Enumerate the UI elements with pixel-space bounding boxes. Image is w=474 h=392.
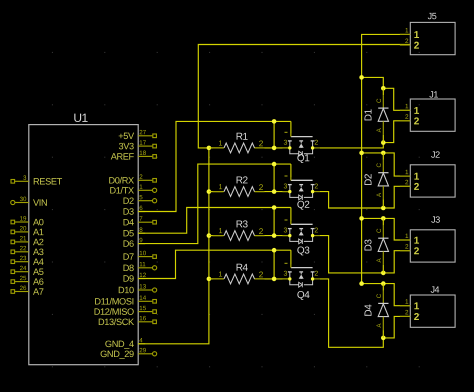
pin 26 A7 — [15, 291, 29, 293]
svg-text:10: 10 — [139, 250, 146, 257]
svg-text:R4: R4 — [236, 263, 249, 274]
pin 6 D3 — [138, 211, 145, 213]
wire gnd rail to R4 pin1 — [209, 278, 223, 280]
svg-text:RESET: RESET — [33, 177, 63, 187]
svg-text:VIN: VIN — [33, 198, 47, 208]
svg-text:AREF: AREF — [111, 152, 135, 162]
svg-text:C: C — [376, 163, 383, 168]
wire R1 pin2 to Q1 — [254, 147, 289, 149]
wire supply tap row4 — [362, 283, 384, 285]
junction R2 pin2 node — [272, 189, 277, 194]
svg-text:U1: U1 — [73, 111, 88, 125]
wire tap to J3 pin1 — [383, 218, 410, 240]
svg-text:D4: D4 — [363, 304, 374, 317]
pin 29 GND_29 — [138, 353, 152, 355]
pin 14 D11/MOSI — [138, 300, 152, 302]
svg-text:GND_29: GND_29 — [100, 349, 134, 359]
wire Q1 drain to D1 anode — [320, 143, 383, 148]
svg-text:2: 2 — [139, 174, 143, 181]
wire gnd rail to R3 pin1 — [209, 235, 223, 237]
svg-text:1: 1 — [218, 269, 222, 278]
svg-text:2: 2 — [405, 179, 409, 186]
svg-text:A5: A5 — [33, 267, 44, 277]
svg-text:3: 3 — [283, 271, 287, 278]
junction D3 anode — [381, 271, 386, 276]
pin 20 A1 — [15, 231, 29, 233]
svg-text:2: 2 — [414, 182, 420, 193]
svg-text:1: 1 — [139, 184, 143, 191]
wire D4 anode to J4 pin2 — [383, 316, 410, 338]
svg-text:D11/MOSI: D11/MOSI — [94, 296, 133, 306]
svg-text:D3: D3 — [123, 207, 134, 217]
svg-text:D2: D2 — [363, 173, 374, 186]
pin 3 RESET — [15, 180, 29, 182]
wire D9 to Q4 gate feed — [138, 250, 291, 278]
svg-text:J3: J3 — [431, 215, 440, 225]
svg-text:Q2: Q2 — [297, 200, 310, 211]
svg-text:1: 1 — [405, 103, 409, 110]
svg-text:29: 29 — [139, 347, 146, 354]
svg-text:15: 15 — [139, 305, 146, 312]
svg-text:2: 2 — [405, 114, 409, 121]
svg-text:R3: R3 — [236, 219, 249, 230]
svg-text:1: 1 — [414, 236, 420, 247]
node Q2 source — [288, 190, 291, 193]
junction gate feed Q4 — [272, 248, 277, 253]
svg-text:16: 16 — [139, 315, 146, 322]
svg-text:25: 25 — [20, 275, 27, 282]
svg-text:30: 30 — [20, 196, 27, 203]
junction D4 anode — [381, 336, 386, 341]
svg-text:+5V: +5V — [118, 131, 135, 141]
svg-text:5: 5 — [139, 194, 143, 201]
junction gnd rail R2 — [207, 189, 212, 194]
junction gate feed Q3 — [272, 205, 277, 210]
wire D5 to Q3 gate feed — [138, 208, 291, 234]
wire J5 pin2 gnd — [198, 45, 410, 148]
pin 30 VIN — [15, 202, 29, 204]
svg-text:2: 2 — [314, 183, 318, 190]
transistor Q2 — [282, 176, 320, 211]
connector J3 — [400, 215, 455, 262]
svg-text:D13/SCK: D13/SCK — [98, 317, 135, 327]
svg-text:1: 1 — [218, 226, 222, 235]
connector J5 — [400, 11, 455, 55]
junction rail row4 — [359, 281, 364, 286]
junction R1 pin2 node — [272, 146, 277, 151]
svg-text:1: 1 — [405, 233, 409, 240]
svg-text:11: 11 — [139, 261, 146, 268]
svg-text:2: 2 — [414, 116, 420, 127]
svg-text:22: 22 — [20, 245, 27, 252]
svg-text:A7: A7 — [33, 287, 44, 297]
svg-text:C: C — [376, 228, 383, 233]
svg-text:C: C — [376, 98, 383, 103]
svg-text:26: 26 — [20, 285, 27, 292]
svg-text:1: 1 — [405, 169, 409, 176]
pin 22 A3 — [15, 251, 29, 253]
svg-text:14: 14 — [139, 295, 146, 302]
pin 2 D0/RX — [138, 179, 152, 181]
pin 19 A0 — [15, 221, 29, 223]
junction R4 pin2 node — [272, 277, 277, 282]
svg-text:1: 1 — [414, 30, 420, 41]
svg-text:D8: D8 — [123, 263, 134, 273]
node Q4 drain — [311, 277, 314, 280]
svg-text:2: 2 — [314, 271, 318, 278]
wire supply tap row1 — [362, 77, 384, 88]
diode D4 — [363, 284, 388, 338]
svg-text:1: 1 — [218, 138, 222, 147]
svg-text:D3: D3 — [363, 239, 374, 252]
svg-text:24: 24 — [20, 265, 27, 272]
junction tap row3 — [381, 216, 386, 221]
wire D1 anode to J1 pin2 — [383, 121, 410, 143]
svg-text:D1: D1 — [363, 108, 374, 121]
junction R3 pin2 node — [272, 233, 277, 238]
svg-text:27: 27 — [139, 129, 146, 136]
svg-text:2: 2 — [259, 227, 264, 236]
wire Q4 gate riser — [290, 250, 292, 267]
svg-text:1: 1 — [414, 106, 420, 117]
svg-text:13: 13 — [139, 284, 146, 291]
junction D1 anode — [381, 140, 386, 145]
wire Q1 gate riser — [290, 121, 292, 136]
resistor R2 — [213, 175, 265, 196]
junction tap row2 — [381, 151, 386, 156]
svg-text:2: 2 — [259, 139, 264, 148]
svg-text:J5: J5 — [428, 11, 437, 21]
connector J1 — [400, 89, 455, 131]
junction rail row2 — [359, 151, 364, 156]
pin 25 A6 — [15, 281, 29, 283]
svg-text:J2: J2 — [431, 150, 440, 160]
svg-text:3V3: 3V3 — [118, 141, 134, 151]
svg-text:D12/MISO: D12/MISO — [94, 307, 134, 317]
transistor Q3 — [282, 220, 320, 257]
wire J5 pin1 supply rail — [362, 34, 411, 283]
svg-text:1: 1 — [218, 182, 222, 191]
svg-text:A3: A3 — [33, 247, 44, 257]
wire R4 pin2 to Q4 — [254, 278, 289, 280]
svg-text:3: 3 — [283, 227, 287, 234]
node Q2 drain — [311, 190, 314, 193]
wire D2 anode to J2 pin2 — [383, 186, 410, 208]
svg-text:J4: J4 — [430, 285, 439, 295]
wire gate junction drop Q3 — [273, 208, 275, 236]
junction tap row1 — [381, 86, 386, 91]
pin 27 +5V — [138, 135, 152, 137]
wire Q3 drain to D3 anode — [320, 236, 383, 273]
svg-text:J1: J1 — [429, 89, 438, 99]
wire Q2 gate riser — [290, 164, 292, 180]
wire Q3 gate riser — [290, 208, 292, 225]
pin 17 3V3 — [138, 145, 152, 147]
wire tap to J4 pin1 — [383, 284, 410, 306]
pin 1 D1/TX — [138, 189, 152, 191]
svg-text:D1/TX: D1/TX — [110, 185, 135, 195]
IC U1 Arduino Nano body — [29, 125, 138, 365]
svg-text:2: 2 — [405, 244, 409, 251]
svg-text:A0: A0 — [33, 217, 44, 227]
pin 24 A5 — [15, 271, 29, 273]
svg-text:D6: D6 — [123, 239, 134, 249]
svg-text:A2: A2 — [33, 237, 44, 247]
pin 7 D4 — [138, 221, 152, 223]
pin 13 D10 — [138, 289, 152, 291]
svg-text:D4: D4 — [123, 217, 134, 227]
svg-text:3: 3 — [283, 183, 287, 190]
pin 11 D8 — [138, 267, 152, 269]
pin 15 D12/MISO — [138, 311, 152, 313]
wire Q4 drain to D4 anode — [320, 279, 383, 347]
svg-text:2: 2 — [259, 270, 264, 279]
pin 8 D5 — [138, 232, 145, 234]
svg-text:1: 1 — [405, 299, 409, 306]
pin 10 D7 — [138, 256, 152, 258]
svg-text:D5: D5 — [123, 228, 134, 238]
pin 5 D2 — [138, 200, 152, 202]
pin 16 D13/SCK — [138, 321, 152, 323]
junction gnd rail R3 — [207, 233, 212, 238]
resistor R1 — [213, 132, 265, 153]
wire gate junction drop Q4 — [273, 250, 275, 279]
node Q1 source — [288, 146, 291, 149]
wire gnd rail to R1 pin1 — [209, 147, 223, 149]
svg-text:2: 2 — [259, 183, 264, 192]
wire R3 pin2 to Q3 — [254, 235, 289, 237]
pin 12 D9 — [138, 278, 145, 280]
wire D6 to Q2 gate feed — [138, 164, 291, 244]
pin 21 A2 — [15, 241, 29, 243]
svg-text:2: 2 — [314, 227, 318, 234]
junction gnd rail R1 — [207, 146, 212, 151]
wire tap to J2 pin1 — [383, 153, 410, 176]
wire D3 to Q1 gate feed — [138, 121, 291, 211]
resistor R3 — [213, 219, 265, 240]
svg-text:2: 2 — [414, 246, 420, 257]
svg-text:A4: A4 — [33, 257, 44, 267]
diode D2 — [363, 153, 388, 207]
wire supply tap row2 — [362, 152, 384, 154]
junction rail row3 — [359, 216, 364, 221]
pin 4 GND_4 — [138, 343, 145, 345]
connector J4 — [400, 285, 455, 328]
junction D2 anode — [381, 206, 386, 211]
svg-text:21: 21 — [20, 235, 27, 242]
svg-text:7: 7 — [139, 216, 143, 223]
diode D1 — [363, 88, 388, 142]
junction gate feed Q2 — [272, 162, 277, 167]
svg-text:2: 2 — [314, 140, 318, 147]
node Q3 source — [288, 234, 291, 237]
svg-text:R2: R2 — [236, 175, 249, 186]
wire supply tap row3 — [362, 217, 384, 219]
node Q4 source — [288, 277, 291, 280]
svg-text:23: 23 — [20, 255, 27, 262]
connector J2 — [400, 150, 455, 197]
svg-text:3: 3 — [23, 175, 27, 182]
svg-text:2: 2 — [414, 41, 420, 52]
svg-text:D2: D2 — [123, 196, 134, 206]
svg-text:D7: D7 — [123, 252, 134, 262]
svg-text:Q3: Q3 — [297, 245, 310, 256]
wire Q2 drain to D2 anode — [320, 192, 383, 208]
wire R2 pin2 to Q2 — [254, 191, 289, 193]
svg-text:20: 20 — [20, 225, 27, 232]
node Q3 drain — [311, 234, 314, 237]
wire tap to J1 pin1 — [383, 88, 410, 110]
svg-text:18: 18 — [139, 150, 146, 157]
junction gnd rail R4 — [207, 277, 212, 282]
pin 23 A4 — [15, 261, 29, 263]
wire GND_4 to gnd rail — [138, 148, 209, 344]
transistor Q4 — [282, 263, 320, 301]
svg-text:1: 1 — [405, 27, 409, 34]
svg-text:GND_4: GND_4 — [105, 339, 134, 349]
pin 18 AREF — [138, 155, 152, 157]
svg-text:A6: A6 — [33, 277, 44, 287]
junction tap row4 — [381, 281, 386, 286]
svg-text:Q4: Q4 — [297, 290, 310, 301]
resistor R4 — [213, 263, 265, 284]
svg-text:2: 2 — [405, 309, 409, 316]
wire gate junction drop Q1 — [273, 121, 275, 147]
node Q1 drain — [311, 146, 314, 149]
svg-text:C: C — [376, 293, 383, 298]
svg-text:17: 17 — [139, 140, 146, 147]
diode D3 — [363, 218, 388, 272]
svg-text:1: 1 — [414, 301, 420, 312]
svg-text:A1: A1 — [33, 227, 44, 237]
svg-text:Q1: Q1 — [297, 153, 310, 164]
transistor Q1 — [282, 132, 320, 164]
wire gate junction drop Q2 — [273, 164, 275, 192]
svg-text:D9: D9 — [123, 274, 134, 284]
svg-text:D10: D10 — [118, 285, 134, 295]
svg-text:2: 2 — [414, 312, 420, 323]
pin 9 D6 — [138, 243, 145, 245]
svg-text:2: 2 — [405, 38, 409, 45]
junction gate feed Q1 — [272, 119, 277, 124]
svg-text:19: 19 — [20, 215, 27, 222]
svg-text:D0/RX: D0/RX — [108, 175, 134, 185]
svg-text:3: 3 — [283, 140, 287, 147]
wire gnd rail to R2 pin1 — [209, 191, 223, 193]
wire D3 anode to J3 pin2 — [383, 251, 410, 273]
junction rail row1 — [359, 75, 364, 80]
svg-text:R1: R1 — [236, 132, 249, 143]
